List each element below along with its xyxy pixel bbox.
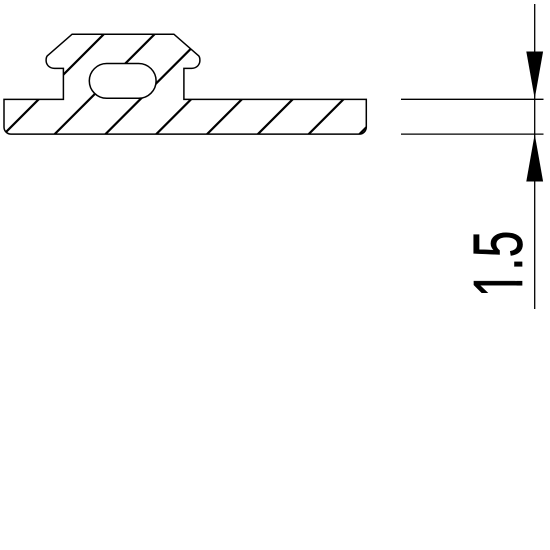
svg-text:1.5: 1.5	[459, 231, 537, 298]
